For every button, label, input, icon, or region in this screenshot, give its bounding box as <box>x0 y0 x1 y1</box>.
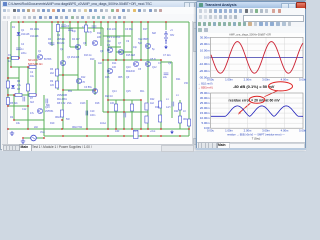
svg-text:C6 B5x: C6 B5x <box>84 86 93 89</box>
svg-text:R4 4k7: R4 4k7 <box>72 38 80 41</box>
svg-text:-20.00m: -20.00m <box>199 69 210 73</box>
svg-text:100: 100 <box>112 66 117 69</box>
svg-text:10.00m: 10.00m <box>200 116 210 120</box>
svg-text:B5x: B5x <box>68 90 73 93</box>
svg-text:R14: R14 <box>112 62 117 65</box>
svg-text:10p: 10p <box>133 46 138 49</box>
svg-text:Q5 D: Q5 D <box>150 58 156 61</box>
svg-text:1k0: 1k0 <box>98 62 103 65</box>
svg-text:0R22 5W: 0R22 5W <box>72 126 83 129</box>
svg-text:R8 0.22: R8 0.22 <box>57 102 66 105</box>
svg-text:47p: 47p <box>88 31 93 34</box>
svg-text:R7: R7 <box>30 97 34 100</box>
svg-text:10R: 10R <box>115 130 120 133</box>
svg-text:C5: C5 <box>138 68 142 71</box>
svg-text:Q15: Q15 <box>126 90 131 93</box>
svg-text:47k: 47k <box>17 84 22 87</box>
svg-text:1N4148: 1N4148 <box>30 35 39 38</box>
svg-text:4.00m: 4.00m <box>281 78 289 82</box>
svg-text:220: 220 <box>97 36 102 39</box>
svg-text:1n: 1n <box>21 48 24 51</box>
svg-text:2N5551: 2N5551 <box>45 110 54 113</box>
svg-text:R15 6k8: R15 6k8 <box>126 54 136 57</box>
svg-text:5pF: 5pF <box>138 42 143 45</box>
svg-text:SR1-R10: SR1-R10 <box>28 59 39 62</box>
svg-text:100n: 100n <box>90 114 96 117</box>
svg-text:VG1: VG1 <box>40 131 45 134</box>
svg-text:2.00m: 2.00m <box>244 78 252 82</box>
svg-text:1k5: 1k5 <box>50 84 55 87</box>
svg-text:5W: 5W <box>66 118 70 121</box>
svg-text:Q14: Q14 <box>112 90 117 93</box>
svg-text:47u: 47u <box>30 112 35 115</box>
svg-text:R10: R10 <box>90 58 95 61</box>
svg-text:0R5: 0R5 <box>118 76 123 79</box>
svg-text:C4: C4 <box>21 43 25 46</box>
svg-text:R21: R21 <box>176 78 181 81</box>
svg-text:-10.00m: -10.00m <box>199 62 210 66</box>
svg-text:1943: 1943 <box>80 102 86 105</box>
svg-text:5p: 5p <box>152 48 155 51</box>
svg-text:4k7: 4k7 <box>48 42 53 45</box>
svg-text:R2: R2 <box>10 116 14 119</box>
svg-text:R13 1k: R13 1k <box>84 54 92 57</box>
svg-text:C12: C12 <box>22 108 27 111</box>
svg-text:1N4148: 1N4148 <box>21 33 30 36</box>
svg-text:R19: R19 <box>50 122 55 125</box>
svg-text:C6 68p: C6 68p <box>125 28 133 31</box>
svg-text:2k2: 2k2 <box>50 72 55 75</box>
svg-text:Q7: Q7 <box>118 42 122 45</box>
svg-text:RL 8: RL 8 <box>133 130 139 133</box>
svg-text:R11: R11 <box>97 32 102 35</box>
svg-text:30.00m: 30.00m <box>200 96 210 100</box>
svg-text:1.00m: 1.00m <box>225 78 233 82</box>
svg-text:C7 22u: C7 22u <box>163 54 171 57</box>
svg-text:R0 100k: R0 100k <box>30 28 40 31</box>
svg-text:0R22: 0R22 <box>55 116 61 119</box>
svg-text:6k8: 6k8 <box>152 32 157 35</box>
svg-text:BAT/SAB 4k4: BAT/SAB 4k4 <box>28 63 43 66</box>
svg-text:→ B5E(+mV): → B5E(+mV) <box>198 86 213 89</box>
svg-text:R9: R9 <box>50 80 54 83</box>
svg-text:5.00m: 5.00m <box>299 129 306 133</box>
svg-text:2SA: 2SA <box>67 102 72 105</box>
svg-text:D2: D2 <box>17 88 21 91</box>
svg-text:3k3: 3k3 <box>30 101 35 104</box>
svg-text:Q1: Q1 <box>21 29 25 32</box>
svg-text:3.00m: 3.00m <box>262 78 270 82</box>
svg-text:1.00m: 1.00m <box>225 129 233 133</box>
svg-text:2N5401: 2N5401 <box>57 38 66 41</box>
svg-text:R20 10: R20 10 <box>105 95 113 98</box>
svg-text:0.00u: 0.00u <box>207 78 214 82</box>
svg-text:Q2: Q2 <box>57 34 61 37</box>
svg-text:20.00m: 20.00m <box>200 106 210 110</box>
svg-text:4.00m: 4.00m <box>281 129 289 133</box>
svg-text:10p: 10p <box>72 30 77 33</box>
svg-text:C10: C10 <box>90 110 95 113</box>
svg-text:470: 470 <box>81 81 86 84</box>
svg-text:residue → B5E(+5mV) — SMPT (re: residue → B5E(+5mV) — SMPT (residue erro… <box>227 133 285 137</box>
svg-text:10: 10 <box>183 110 186 113</box>
svg-text:0.00: 0.00 <box>204 55 210 59</box>
svg-text:C9 0.1u TDF: C9 0.1u TDF <box>107 36 121 39</box>
svg-text:T (Sec): T (Sec) <box>252 136 261 140</box>
svg-text:5.00m: 5.00m <box>201 121 210 125</box>
svg-text:R18: R18 <box>95 102 100 105</box>
svg-text:20.00m: 20.00m <box>200 42 210 46</box>
svg-text:→ B1(1+mV): → B1(1+mV) <box>198 83 213 86</box>
svg-text:MJL: MJL <box>140 90 145 93</box>
svg-text:R17: R17 <box>143 28 148 31</box>
svg-text:AMP_cna_diags_500Hz-50dBT+OR: AMP_cna_diags_500Hz-50dBT+OR <box>229 33 271 37</box>
svg-text:10k: 10k <box>16 122 21 125</box>
svg-text:R4: R4 <box>48 38 52 41</box>
svg-text:Q5: Q5 <box>168 62 172 65</box>
svg-text:+V: +V <box>170 29 173 32</box>
svg-text:Q9: Q9 <box>126 76 130 79</box>
svg-text:68p: 68p <box>46 104 51 107</box>
svg-text:10p: 10p <box>107 40 112 43</box>
svg-text:R12: R12 <box>81 76 86 79</box>
svg-text:C2: C2 <box>30 71 34 74</box>
svg-text:R3: R3 <box>17 80 21 83</box>
svg-text:220u: 220u <box>21 52 27 55</box>
svg-text:3.00m: 3.00m <box>262 129 270 133</box>
svg-text:7kA 6BR5: 7kA 6BR5 <box>138 38 149 41</box>
svg-text:35.00m: 35.00m <box>200 91 210 95</box>
svg-text:D1: D1 <box>12 26 16 29</box>
svg-text:R23: R23 <box>155 106 160 109</box>
svg-text:25.00m: 25.00m <box>200 101 210 105</box>
svg-text:BD139: BD139 <box>57 42 65 45</box>
svg-text:MJL4281: MJL4281 <box>57 98 68 101</box>
svg-text:2k0: 2k0 <box>34 126 39 129</box>
svg-text:10u: 10u <box>30 75 35 78</box>
svg-text:150: 150 <box>184 82 189 85</box>
svg-text:Q10: Q10 <box>126 66 131 69</box>
svg-text:residue error = 20 mV at 60 mV: residue error = 20 mV at 60 mV <box>229 98 281 102</box>
svg-text:100: 100 <box>110 102 115 105</box>
svg-text:36V: 36V <box>170 34 175 37</box>
svg-text:2.00m: 2.00m <box>244 129 252 133</box>
svg-text:R14 220: R14 220 <box>107 28 117 31</box>
svg-text:Zobel: Zobel <box>100 122 106 125</box>
svg-text:R6: R6 <box>50 68 54 71</box>
svg-text:BC556: BC556 <box>44 58 52 61</box>
svg-text:R16: R16 <box>105 76 110 79</box>
svg-text:R24: R24 <box>174 110 179 113</box>
svg-text:22u: 22u <box>163 76 168 79</box>
svg-text:R5 22k: R5 22k <box>10 102 18 105</box>
svg-text:1k2: 1k2 <box>150 102 155 105</box>
svg-text:0R1: 0R1 <box>183 118 188 121</box>
svg-text:L1: L1 <box>176 94 179 97</box>
svg-text:MJE340: MJE340 <box>126 70 135 73</box>
svg-text:30.00m: 30.00m <box>200 35 210 39</box>
svg-text:L1: L1 <box>166 98 169 101</box>
svg-text:15.00m: 15.00m <box>200 111 210 115</box>
svg-text:10.00m: 10.00m <box>200 49 210 53</box>
svg-text:+Out: +Out <box>150 130 156 133</box>
svg-text:Q3 2N4403: Q3 2N4403 <box>67 56 80 59</box>
svg-text:Q12: Q12 <box>152 66 157 69</box>
svg-text:1uH: 1uH <box>166 106 171 109</box>
svg-text:C3: C3 <box>66 25 70 28</box>
svg-text:5.00m: 5.00m <box>299 78 306 82</box>
svg-text:Q6: Q6 <box>107 44 111 47</box>
svg-text:R22: R22 <box>150 98 155 101</box>
svg-text:C9: C9 <box>126 40 130 43</box>
svg-text:0.00u: 0.00u <box>207 129 214 133</box>
svg-text:Q1: Q1 <box>38 50 42 53</box>
svg-text:2N5200B: 2N5200B <box>57 94 67 97</box>
